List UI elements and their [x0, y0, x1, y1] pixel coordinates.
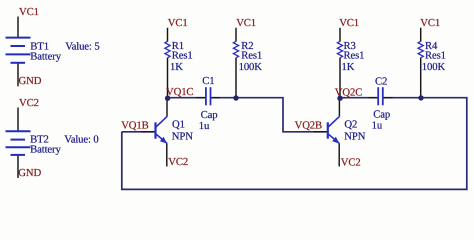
svg-text:VC2: VC2	[341, 156, 361, 168]
svg-text:Res1: Res1	[344, 50, 365, 62]
svg-text:1u: 1u	[199, 120, 210, 132]
svg-text:VC1: VC1	[420, 17, 440, 29]
svg-text:GND: GND	[19, 75, 42, 87]
svg-text:100K: 100K	[422, 61, 446, 73]
svg-text:Value: 5: Value: 5	[65, 40, 99, 52]
svg-text:NPN: NPN	[172, 131, 193, 143]
svg-text:Q2: Q2	[344, 119, 357, 131]
svg-text:1K: 1K	[170, 61, 183, 73]
svg-text:Cap: Cap	[201, 109, 218, 121]
svg-text:VQ1C: VQ1C	[166, 86, 193, 98]
svg-text:100K: 100K	[239, 61, 263, 73]
svg-text:VQ2C: VQ2C	[335, 86, 362, 98]
svg-text:VC1: VC1	[19, 6, 39, 18]
svg-text:GND: GND	[18, 167, 41, 179]
svg-text:VC1: VC1	[339, 17, 359, 29]
svg-text:1K: 1K	[342, 61, 355, 73]
svg-text:Res1: Res1	[241, 50, 262, 62]
svg-text:Battery: Battery	[30, 144, 61, 156]
svg-text:Battery: Battery	[30, 50, 61, 62]
svg-text:Res1: Res1	[172, 50, 193, 62]
svg-text:VQ1B: VQ1B	[121, 119, 148, 131]
svg-text:Q1: Q1	[172, 119, 185, 131]
svg-text:NPN: NPN	[344, 131, 365, 143]
svg-text:VC1: VC1	[168, 17, 188, 29]
svg-text:VC2: VC2	[19, 97, 39, 109]
svg-text:Value: 0: Value: 0	[64, 133, 98, 145]
svg-text:VC1: VC1	[236, 17, 256, 29]
svg-text:VC2: VC2	[168, 156, 188, 168]
svg-text:Res1: Res1	[425, 50, 446, 62]
svg-text:1u: 1u	[372, 120, 383, 132]
svg-text:VQ2B: VQ2B	[295, 120, 322, 132]
svg-text:C1: C1	[202, 75, 214, 87]
svg-text:C2: C2	[375, 75, 387, 87]
